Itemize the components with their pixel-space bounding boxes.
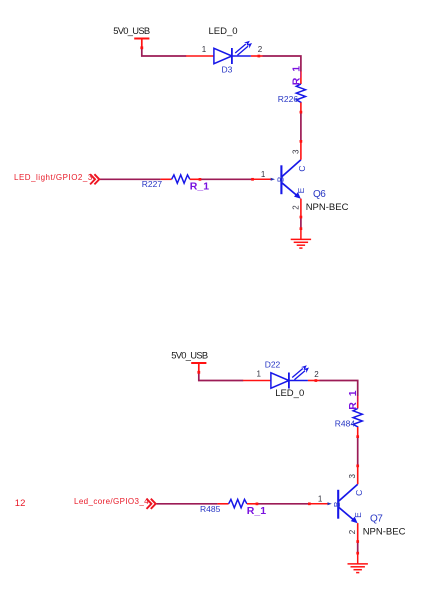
- svg-text:1: 1: [202, 45, 207, 54]
- svg-text:3: 3: [348, 474, 357, 479]
- svg-text:R226: R226: [278, 94, 299, 104]
- svg-text:R484: R484: [335, 418, 356, 428]
- svg-text:1: 1: [318, 495, 323, 504]
- svg-text:R_1: R_1: [290, 66, 302, 85]
- svg-text:2: 2: [348, 529, 357, 534]
- svg-text:1: 1: [261, 170, 266, 179]
- svg-text:NPN-BEC: NPN-BEC: [363, 527, 406, 538]
- svg-text:1: 1: [257, 369, 262, 378]
- svg-text:R227: R227: [142, 179, 163, 189]
- svg-text:2: 2: [314, 370, 319, 379]
- svg-text:5V0_USB: 5V0_USB: [113, 25, 150, 36]
- svg-text:B: B: [332, 501, 342, 507]
- svg-text:5V0_USB: 5V0_USB: [171, 350, 208, 361]
- svg-text:NPN-BEC: NPN-BEC: [306, 202, 349, 213]
- svg-text:R_1: R_1: [247, 505, 266, 517]
- svg-text:12: 12: [15, 498, 26, 509]
- svg-text:R485: R485: [200, 504, 221, 514]
- svg-text:LED_0: LED_0: [275, 388, 304, 399]
- svg-text:Q6: Q6: [313, 189, 326, 200]
- svg-text:C: C: [354, 490, 364, 496]
- svg-text:LED_light/GPIO2_3: LED_light/GPIO2_3: [14, 173, 93, 182]
- svg-text:D3: D3: [222, 65, 233, 75]
- svg-text:LED_0: LED_0: [209, 26, 238, 37]
- svg-text:2: 2: [258, 45, 263, 54]
- svg-text:R_1: R_1: [347, 390, 359, 409]
- svg-text:R_1: R_1: [190, 181, 209, 193]
- svg-text:E: E: [296, 187, 306, 193]
- svg-text:Q7: Q7: [370, 514, 383, 525]
- svg-text:E: E: [353, 512, 363, 518]
- svg-text:B: B: [276, 176, 286, 182]
- svg-text:3: 3: [291, 149, 300, 154]
- svg-text:D22: D22: [265, 359, 281, 369]
- svg-text:2: 2: [291, 205, 300, 210]
- svg-text:C: C: [297, 165, 307, 171]
- svg-text:Led_core/GPIO3_4: Led_core/GPIO3_4: [74, 497, 149, 506]
